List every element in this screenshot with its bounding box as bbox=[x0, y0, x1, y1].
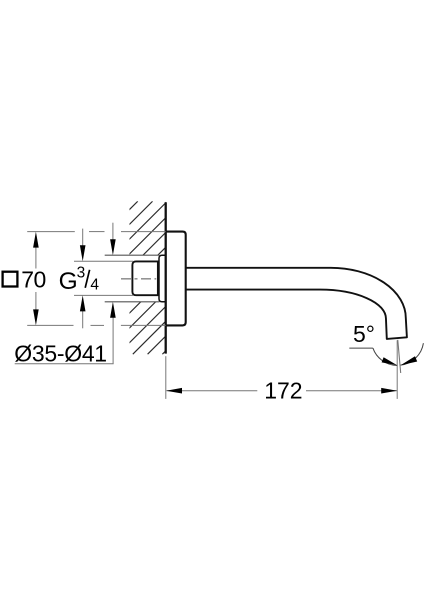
G3/4 arrow top bbox=[82, 229, 84, 246]
dimension 172 arrow left bbox=[166, 388, 182, 394]
wall flange plate bbox=[166, 232, 186, 326]
svg-text:4: 4 bbox=[90, 277, 99, 294]
wall hatch bbox=[0, 201, 315, 354]
spout tube bbox=[186, 268, 407, 339]
dia 35-41 arrow bottom bbox=[112, 317, 114, 364]
svg-text:3: 3 bbox=[77, 265, 86, 282]
svg-text:Ø35-Ø41: Ø35-Ø41 bbox=[14, 340, 107, 366]
dia 35-41 arrow top bbox=[112, 223, 114, 240]
extension line 172 left bbox=[165, 356, 167, 399]
G3/4 threaded nipple bbox=[132, 261, 158, 295]
angle arc right bbox=[401, 343, 424, 365]
5 degree slant line bbox=[398, 340, 401, 373]
G3/4 arrow bottom bbox=[82, 311, 84, 328]
dimension 172 line bbox=[167, 390, 397, 392]
hole bottom edge line bbox=[105, 301, 160, 303]
angle arc left bbox=[373, 348, 397, 365]
svg-text:5°: 5° bbox=[353, 321, 375, 347]
dimension 70 line bbox=[35, 247, 37, 310]
extension line 172 right (spout tip vertical) bbox=[396, 340, 398, 399]
dimension 70 arrow up bbox=[33, 232, 39, 248]
mounting collar bbox=[159, 255, 166, 302]
dia 35-41 leader line bbox=[15, 363, 114, 365]
dimension 70 arrow down bbox=[33, 309, 39, 325]
svg-text:G: G bbox=[59, 268, 78, 295]
wall face line bbox=[165, 202, 167, 353]
centerline bbox=[121, 278, 156, 280]
G3/4 extension bottom bbox=[74, 294, 133, 296]
svg-text:70: 70 bbox=[21, 267, 46, 293]
square symbol bbox=[3, 272, 18, 287]
hole top edge line bbox=[105, 254, 160, 256]
dimension 172 arrow right bbox=[381, 388, 397, 394]
angle leader under 5deg bbox=[349, 347, 373, 349]
G3/4 extension top bbox=[74, 260, 133, 262]
extension line plate top bbox=[27, 231, 166, 233]
extension line plate bottom bbox=[27, 324, 166, 326]
svg-text:172: 172 bbox=[264, 378, 302, 404]
